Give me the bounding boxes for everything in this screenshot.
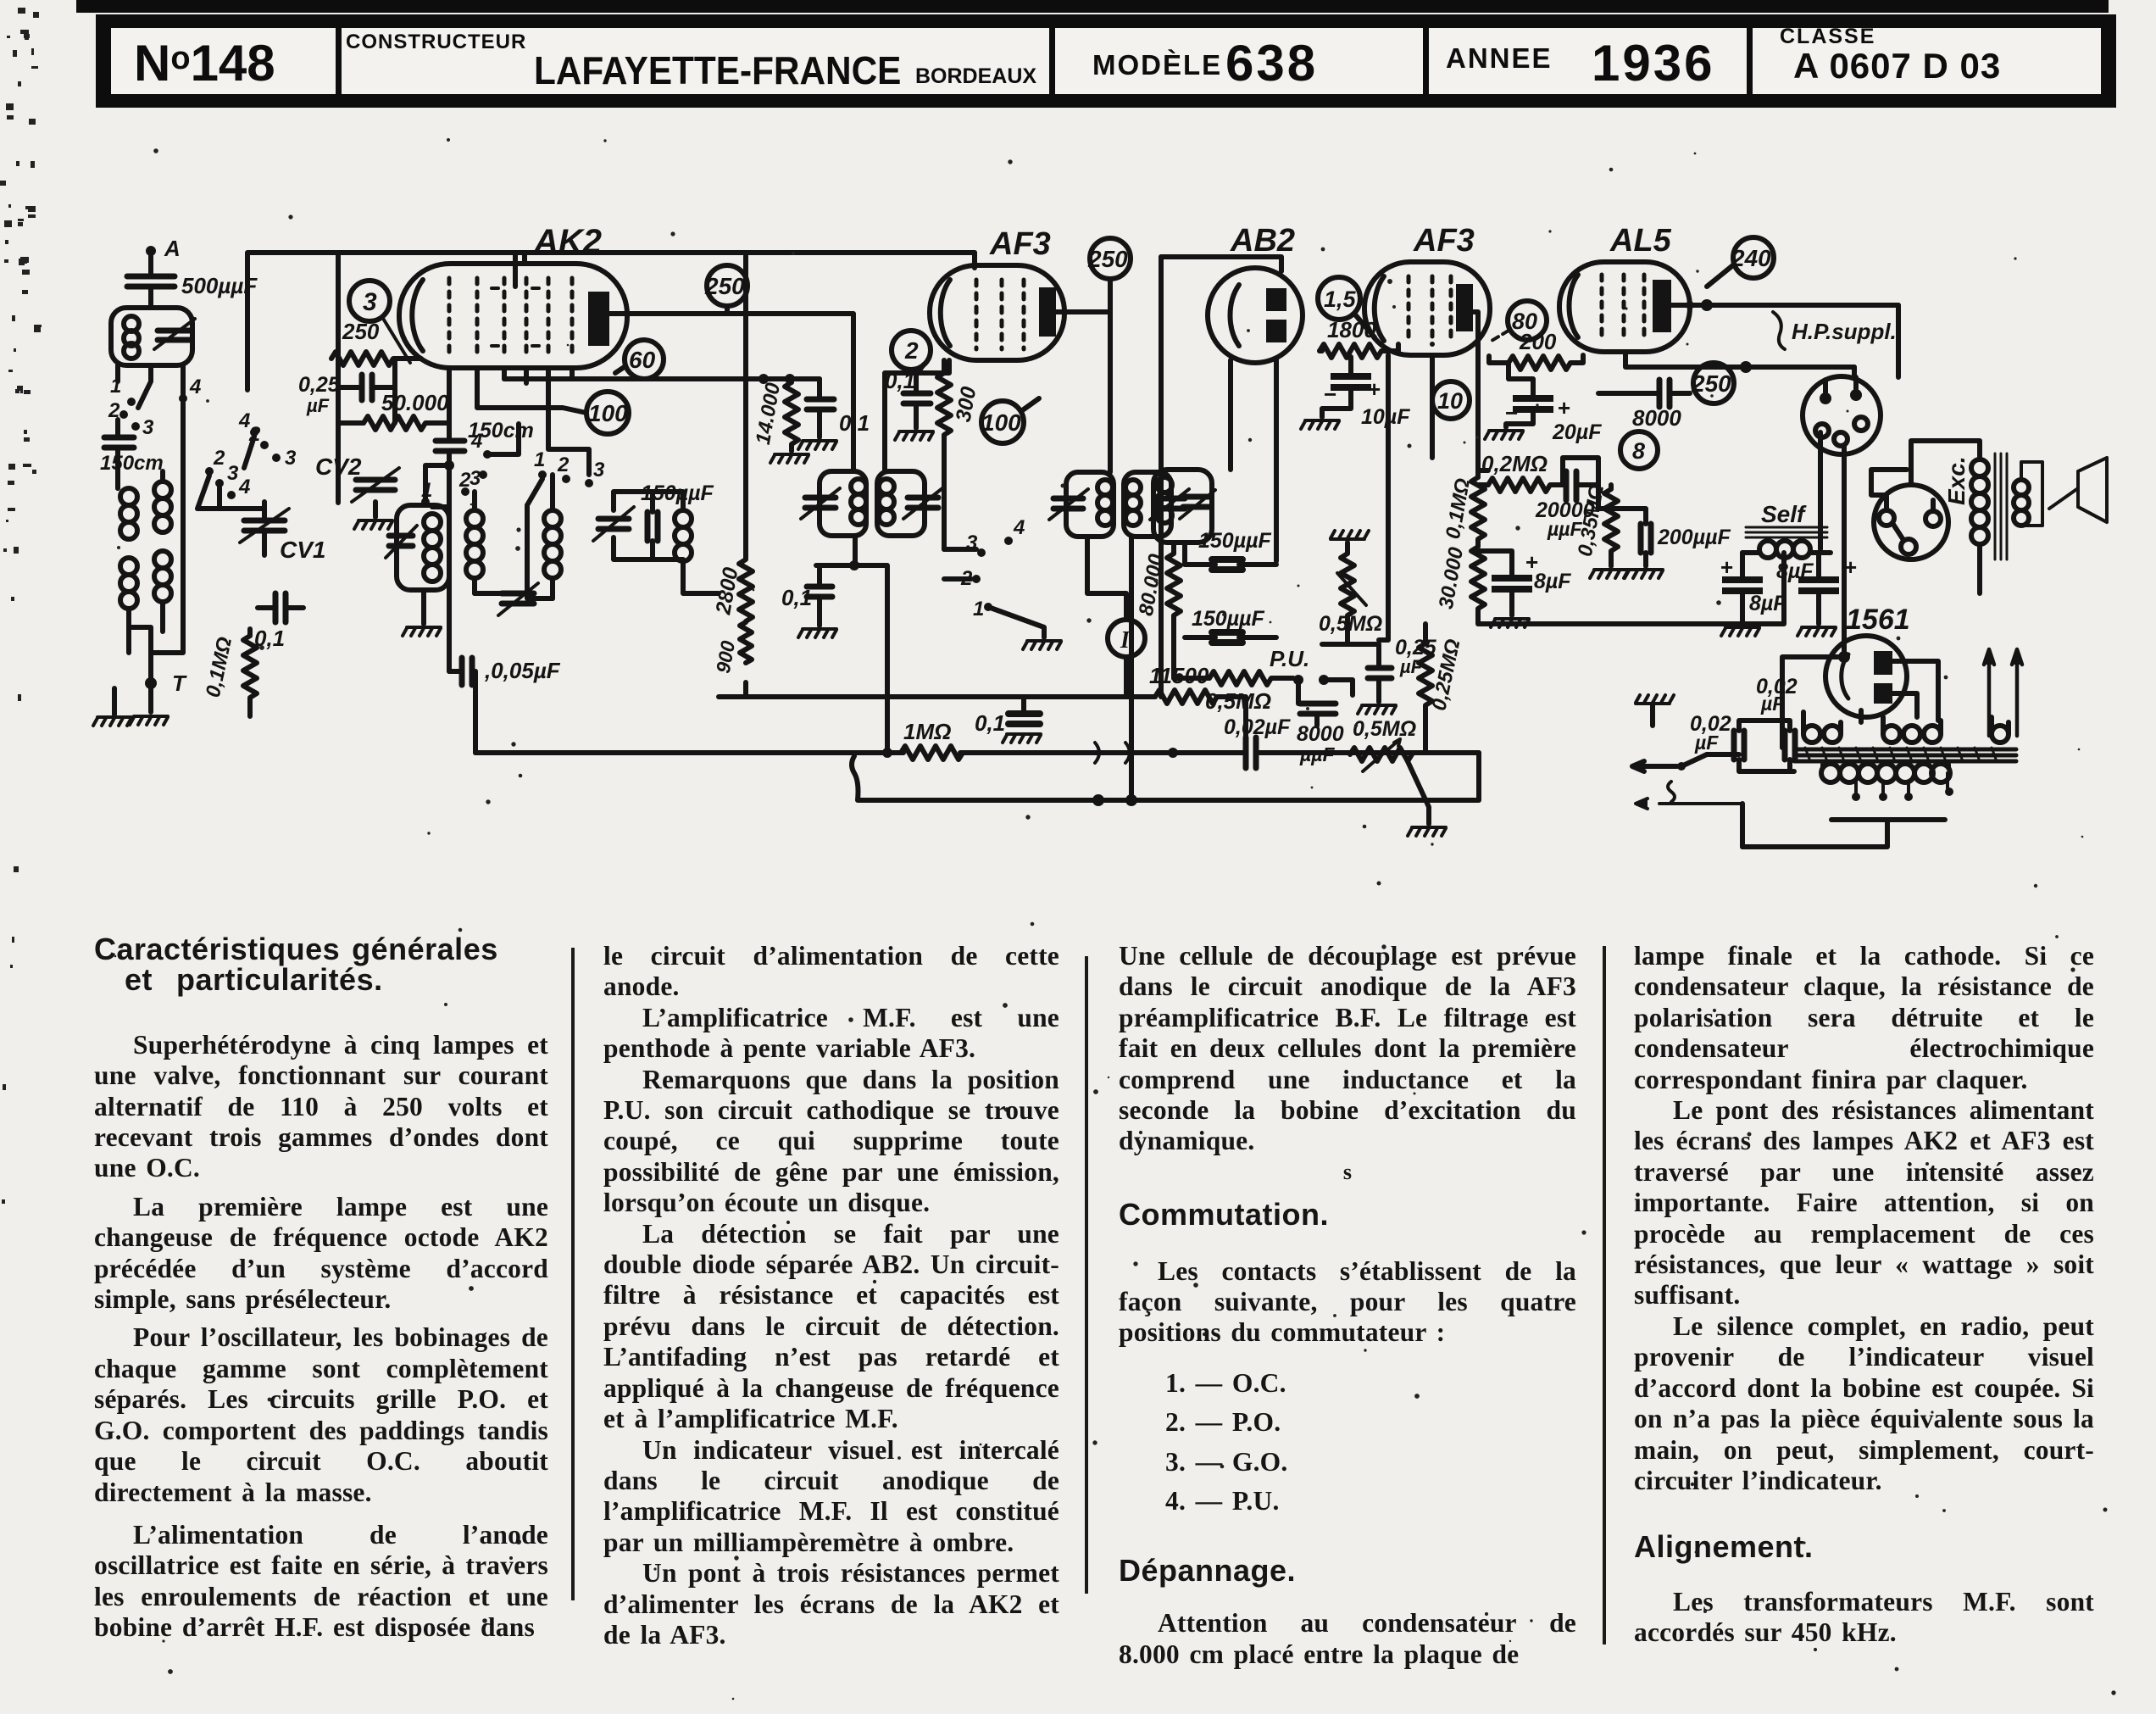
capacitor 200µµF xyxy=(1598,509,1731,566)
potentiometer 0,5MΩ (tone) xyxy=(1319,543,1382,644)
svg-text:50.000: 50.000 xyxy=(381,390,449,415)
svg-text:3: 3 xyxy=(470,467,481,490)
ground (oscillator L1) xyxy=(403,590,441,636)
circled anode 240 xyxy=(1707,237,1774,287)
svg-text:150µµF: 150µµF xyxy=(1192,607,1265,631)
ground (20µF) xyxy=(1485,431,1523,439)
resistor 0,2MΩ xyxy=(1478,451,1563,492)
electrolytic 8µF (filter 2) xyxy=(1749,553,1857,624)
wire: AF3 BF grid drop xyxy=(1379,355,1388,640)
wire xyxy=(148,256,153,273)
svg-text:250: 250 xyxy=(704,273,745,299)
power transformer HT primaries xyxy=(1803,712,2009,743)
wire: oscillator connections xyxy=(425,465,553,680)
ground (terminal T) xyxy=(130,716,168,725)
wire: vertical feed at x399 xyxy=(336,253,341,503)
capacitor 150µµF (detector 1) xyxy=(1185,529,1276,570)
svg-text:0,1: 0,1 xyxy=(254,626,285,651)
svg-text:CV1: CV1 xyxy=(280,537,325,563)
oscillator coil L3 xyxy=(544,475,561,598)
svg-text:0,5MΩ: 0,5MΩ xyxy=(1319,612,1382,636)
switch contacts 1 2 3 (oscillator anode) xyxy=(470,424,605,505)
svg-text:1MΩ: 1MΩ xyxy=(903,719,951,744)
resistor 0,35MΩ (vertical) xyxy=(1574,482,1618,566)
resistor 0,5MΩ (diode load) xyxy=(1174,671,1293,714)
svg-text:0,25: 0,25 xyxy=(298,373,341,397)
svg-text:0,1MΩ: 0,1MΩ xyxy=(1442,476,1475,541)
tube AB2 envelope xyxy=(1208,223,1303,363)
tube AF3 (M.F.) envelope xyxy=(930,226,1064,360)
svg-text:100: 100 xyxy=(981,409,1021,436)
svg-text:+: + xyxy=(1558,395,1570,420)
svg-text:AF3: AF3 xyxy=(1413,223,1475,259)
svg-text:µF: µF xyxy=(1399,656,1423,677)
svg-text:0,1: 0,1 xyxy=(839,410,870,436)
circled grid voltage 10 xyxy=(1432,381,1470,419)
svg-text:8µF: 8µF xyxy=(1749,592,1786,615)
column 2 xyxy=(603,941,1059,1650)
variable capacitor CV2 (oscillator) xyxy=(315,454,399,517)
variable capacitor CV1 (tuning) xyxy=(240,502,325,563)
wire: top HT rail xyxy=(247,253,975,390)
band switch contacts 2 3 4 (input) xyxy=(197,447,250,509)
svg-text:250: 250 xyxy=(1087,246,1128,272)
wire: AK2 screen pin drop xyxy=(504,368,589,475)
capacitor 0,02µF (mains 2) xyxy=(1756,675,1798,760)
ground (0,35MΩ) xyxy=(1590,570,1628,578)
svg-text:2: 2 xyxy=(557,454,570,476)
capacitor 8000µµF xyxy=(1297,680,1344,765)
svg-text:3: 3 xyxy=(227,462,239,485)
potentiometer 0,5MΩ (volume, on bus) xyxy=(1350,717,1429,824)
resistor 0,1MΩ (vertical) xyxy=(1442,470,1488,546)
column 1 xyxy=(94,934,548,1644)
column rules xyxy=(571,948,575,1600)
resistor 80.000 (vertical) xyxy=(1135,543,1181,678)
resistor 200 xyxy=(1489,329,1583,370)
ground (volume pot) xyxy=(1408,827,1446,836)
svg-text:−: − xyxy=(1324,381,1336,407)
svg-text:3: 3 xyxy=(593,459,605,481)
svg-text:4: 4 xyxy=(1013,516,1025,539)
wire: AK2 extra pin drops xyxy=(525,253,572,383)
AB2 cathode xyxy=(1231,285,1240,346)
svg-text:,0,05µF: ,0,05µF xyxy=(484,658,561,683)
ground (filter 1) xyxy=(1721,627,1759,636)
svg-text:150µµF: 150µµF xyxy=(1198,529,1272,553)
svg-text:150cm: 150cm xyxy=(100,452,164,475)
wire: speaker plug drop xyxy=(1818,432,1823,549)
svg-text:500µµF: 500µµF xyxy=(181,273,258,298)
svg-text:14.000: 14.000 xyxy=(752,381,785,447)
header box xyxy=(96,14,2116,108)
IF transformer MF1 primary xyxy=(801,471,866,536)
capacitor 0,1 (antenna section) xyxy=(254,593,303,651)
svg-text:60: 60 xyxy=(629,347,656,373)
junction dots (HP) xyxy=(1686,299,1752,373)
tube AF3 (B.F.) envelope xyxy=(1364,223,1490,355)
AF3 grids (dashed) xyxy=(976,280,1024,349)
ground (antenna transformer) xyxy=(93,688,131,726)
capacitor 0,02µF (mains 1) xyxy=(1690,712,1744,760)
wire: AF3 grid drop from rail xyxy=(972,253,977,268)
wire: oscillator bottom rail y887 left leg xyxy=(473,680,478,753)
rectifier 1561 xyxy=(1825,604,1910,717)
electrolytic 20µF xyxy=(1505,363,1602,444)
column 4 xyxy=(1634,941,2094,1649)
svg-text:0,1: 0,1 xyxy=(885,368,915,393)
capacitor 150cm aerial series xyxy=(100,420,164,475)
wire: AL5 anode out xyxy=(1625,305,1898,367)
AL5 innards xyxy=(1570,275,1672,341)
svg-text:20µF: 20µF xyxy=(1552,420,1602,444)
svg-text:10: 10 xyxy=(1437,388,1463,414)
field/exciter plug xyxy=(1871,470,1948,559)
svg-text:100: 100 xyxy=(588,400,628,426)
ground (0,1 screen) xyxy=(798,441,836,449)
svg-text:8: 8 xyxy=(1632,438,1645,464)
wire + wave-change switch contacts 1 2 3 4 xyxy=(108,365,201,439)
svg-text:3: 3 xyxy=(363,288,377,316)
output transformer / field coil xyxy=(1911,441,2029,593)
capacitor 0,1 (AVC line) xyxy=(781,565,832,626)
svg-text:1,5: 1,5 xyxy=(1324,287,1357,312)
resistor 250 (oscillator anode) xyxy=(331,319,421,365)
ground (aerial mark) xyxy=(1636,695,1674,704)
IF transformer MF2 secondary xyxy=(1124,472,1189,537)
junction dots on buses xyxy=(444,374,1178,806)
power transformer secondary xyxy=(1742,764,1953,847)
resistor 900 (vertical, small) xyxy=(712,622,752,675)
svg-text:µF: µF xyxy=(1760,693,1785,715)
resistor 11500 xyxy=(937,663,1246,753)
trimmer capacitor in antenna box xyxy=(154,319,195,349)
wire: MF1 primary bottom xyxy=(816,536,887,753)
svg-text:0,1: 0,1 xyxy=(781,585,812,610)
loudspeaker xyxy=(2021,458,2107,526)
resistor 1800 xyxy=(1320,317,1398,358)
capacitor 0,05µF (oscillator cathode) xyxy=(449,658,561,685)
svg-text:AL5: AL5 xyxy=(1609,223,1672,259)
svg-text:Exc.: Exc. xyxy=(1943,456,1970,505)
svg-text:1: 1 xyxy=(973,598,984,620)
svg-text:AF3: AF3 xyxy=(989,226,1051,262)
ground (14.000) xyxy=(770,454,808,463)
tube AL5 envelope xyxy=(1559,223,1690,352)
resistor 2800 (vertical) xyxy=(711,559,753,621)
wire: riser x880 with resistors 2800 / 900 xyxy=(743,256,748,697)
ground (0,25µF) xyxy=(1358,705,1396,714)
resistor 300 (vertical) xyxy=(937,360,981,549)
antenna/input transformer windings xyxy=(118,471,171,653)
wire: main cathode bus y888 xyxy=(475,750,1479,755)
electrolytic 8µF (filter 1) xyxy=(1720,553,1814,624)
capacitor 0,1 (screen decoupling) xyxy=(807,379,870,437)
wire: HP plug to rectifier cathode xyxy=(1838,446,1850,663)
ground (commutator) xyxy=(1023,641,1061,649)
AF3 BF grids (dashed) xyxy=(1409,276,1451,344)
ground (10µF) xyxy=(1301,420,1339,429)
svg-text:A: A xyxy=(164,236,181,261)
circled electrode voltage 60 xyxy=(615,340,664,379)
svg-text:H.P.suppl.: H.P.suppl. xyxy=(1792,319,1897,344)
svg-text:CV2: CV2 xyxy=(315,454,362,480)
circled anode voltage 250 xyxy=(704,265,747,314)
resistor 14.000 (vertical) xyxy=(752,379,798,451)
circled screen 250 xyxy=(1691,363,1734,403)
ground (200µµF) xyxy=(1625,570,1663,578)
svg-text:250: 250 xyxy=(1691,370,1731,397)
svg-text:1561: 1561 xyxy=(1846,604,1910,636)
ground (filter 2) xyxy=(1798,627,1836,636)
wire: AVC vertical xyxy=(1159,257,1164,697)
circled screen voltage 100 xyxy=(981,398,1039,443)
wire: detector outputs xyxy=(1345,642,1350,647)
circled meter I (visual indicator) xyxy=(1108,620,1145,697)
wire: AB2 top feed xyxy=(1161,257,1281,271)
circled bias 1,5 xyxy=(1318,277,1375,337)
svg-text:AB2: AB2 xyxy=(1230,223,1295,259)
wire: lower return rail y944 xyxy=(852,753,1479,800)
svg-text:I: I xyxy=(1120,627,1131,654)
AB2 diode anodes xyxy=(1266,288,1286,342)
ground (CV2) xyxy=(354,520,392,529)
resistor 0,1MΩ (vertical) xyxy=(202,629,257,716)
capacitor 150cm (oscillator grid) xyxy=(436,368,534,465)
padding caps 150µµF block xyxy=(593,481,714,561)
svg-text:900: 900 xyxy=(712,639,739,676)
wire: rectifier left loop to primary xyxy=(1782,657,1861,748)
padding trimmer (L2) xyxy=(475,583,553,615)
svg-text:300: 300 xyxy=(952,385,981,424)
HT arrows xyxy=(1984,649,2022,736)
svg-text:1800: 1800 xyxy=(1327,317,1376,342)
HP suppl. bracket xyxy=(1773,312,1897,349)
svg-text:4: 4 xyxy=(238,476,250,498)
wire: MF1 secondary to AF3 grid xyxy=(885,360,949,471)
wire: AB2 diode leads xyxy=(1231,359,1276,561)
svg-text:200µµF: 200µµF xyxy=(1657,526,1731,549)
svg-text:8µF: 8µF xyxy=(1534,570,1571,593)
AF3 BF anode xyxy=(1456,284,1473,331)
wire: rectifier plate to HT winding xyxy=(1892,661,1938,721)
tube AK2 envelope xyxy=(399,223,627,368)
svg-text:0,1: 0,1 xyxy=(975,710,1005,736)
AK2 anode xyxy=(588,292,609,346)
svg-text:2: 2 xyxy=(213,447,225,470)
resistor 30.000 (vertical) xyxy=(1435,545,1485,624)
svg-text:0,5MΩ: 0,5MΩ xyxy=(1205,688,1271,714)
oscillator coil L2 xyxy=(458,469,483,593)
wire hop braces on bus xyxy=(1095,743,1130,763)
top rule xyxy=(76,0,2109,13)
capacitor 8000 (coupling to AL5) xyxy=(1598,380,1690,431)
speaker plug (HP) xyxy=(1803,376,1881,454)
svg-text:T: T xyxy=(172,671,187,696)
node A (aerial terminal) xyxy=(146,236,181,261)
svg-text:30.000: 30.000 xyxy=(1435,545,1468,611)
svg-text:+: + xyxy=(1720,554,1733,580)
oscillator coil L1 with padding cap xyxy=(386,479,449,590)
svg-text:+: + xyxy=(1525,549,1538,575)
column 3 xyxy=(1119,941,1576,1670)
resistor 0,25MΩ (vertical) xyxy=(1419,624,1465,753)
mains input arrows xyxy=(1636,782,1742,809)
circled screen 80 xyxy=(1492,301,1547,341)
svg-text:150cm: 150cm xyxy=(468,419,534,442)
AF3 anode xyxy=(1039,287,1056,337)
circled anode voltage 250 xyxy=(1087,238,1131,312)
circled grid 8 xyxy=(1620,431,1658,469)
svg-text:P.U.: P.U. xyxy=(1270,646,1309,671)
wire: HP vertical drops xyxy=(1854,305,1898,377)
node T (earth terminal) xyxy=(145,653,187,712)
wire: left section verticals xyxy=(118,365,264,653)
circled electrode voltage 100 xyxy=(477,368,629,434)
svg-text:3: 3 xyxy=(142,416,154,439)
resistor 50.000 xyxy=(338,390,449,430)
electrolytic 10µF xyxy=(1322,357,1410,429)
wire: AK2 top entry xyxy=(513,253,518,287)
capacitor 0,1 (AVC decoupling) xyxy=(975,697,1041,743)
svg-text:µF: µF xyxy=(306,395,330,416)
power transformer core xyxy=(1794,748,2016,761)
svg-text:8000: 8000 xyxy=(1297,722,1344,746)
IF transformer MF1 secondary xyxy=(877,471,942,536)
capacitor 500µµF xyxy=(127,273,258,308)
svg-text:2: 2 xyxy=(904,337,919,364)
svg-text:µµF: µµF xyxy=(1299,743,1336,765)
ground (tone, inverted) xyxy=(1331,531,1369,539)
wire: HT rail y736 right xyxy=(1479,553,1784,624)
ground (8µF) xyxy=(1491,619,1529,627)
switch contacts 4 3 2 1 (cathode commutator) xyxy=(944,516,1044,637)
capacitor 0,1 (AF3 cathode) xyxy=(885,368,931,428)
band switch contacts 4 2 3 (oscillator grid) xyxy=(238,409,297,470)
choke Self xyxy=(1742,501,1831,558)
svg-text:+: + xyxy=(1368,376,1381,402)
svg-text:Self: Self xyxy=(1761,501,1807,527)
wire: short AVC bus y822 xyxy=(719,694,937,699)
capacitor 0,25µF xyxy=(1368,636,1437,702)
wire: AF3 anode to MF2 xyxy=(1056,312,1110,472)
svg-text:AK2: AK2 xyxy=(533,223,602,260)
ground (0,1 AVC) xyxy=(798,629,836,637)
resistor 1MΩ (AVC bus) xyxy=(901,719,963,760)
AF3 BF cathode xyxy=(1375,276,1384,341)
wire: MF2 drops xyxy=(1087,537,1131,800)
svg-text:240: 240 xyxy=(1731,245,1771,271)
coil in antenna box xyxy=(124,316,139,359)
svg-text:250: 250 xyxy=(342,319,380,344)
wire: AK2 anode to MF1 xyxy=(609,314,853,471)
wire: oscillator bottom rail link xyxy=(683,561,719,593)
svg-text:8000: 8000 xyxy=(1632,405,1681,431)
svg-text:0,1MΩ: 0,1MΩ xyxy=(202,635,236,699)
electrolytic 8µF (bias) xyxy=(1478,549,1571,615)
detector coil unit xyxy=(1153,470,1215,543)
capacitor 0,25µF xyxy=(298,359,395,423)
capacitor 150µµF (detector 2) xyxy=(1185,607,1276,643)
circled electrode voltage 3 xyxy=(349,281,410,363)
svg-text:4: 4 xyxy=(189,376,201,398)
mains switch xyxy=(1632,754,1707,771)
svg-text:0,2MΩ: 0,2MΩ xyxy=(1481,451,1548,476)
svg-text:1: 1 xyxy=(534,448,545,471)
AK2 grids (dashed) xyxy=(449,278,572,354)
svg-text:0,5MΩ: 0,5MΩ xyxy=(1353,717,1416,741)
capacitor 20000µµF xyxy=(1535,471,1598,540)
wire: screen rail y447 xyxy=(504,376,820,381)
svg-text:µF: µF xyxy=(1694,732,1719,754)
P.U. pick-up jack xyxy=(1270,646,1353,695)
capacitor 0,02µF (on cathode bus) xyxy=(1224,715,1291,768)
wire: BF stage links xyxy=(1432,312,1598,509)
circled cathode voltage 2 xyxy=(892,331,931,375)
ground (AF3 cathode) xyxy=(895,431,933,440)
svg-text:200: 200 xyxy=(1519,329,1557,354)
wire: mains wiring xyxy=(1653,704,1794,847)
AF3 cathode xyxy=(941,280,950,346)
IF transformer MF2 primary xyxy=(1049,472,1114,537)
AK2 cathode xyxy=(412,280,423,351)
antenna coupling coil box xyxy=(111,308,192,365)
AK2 grid brackets xyxy=(492,288,539,346)
svg-text:3: 3 xyxy=(285,447,297,470)
